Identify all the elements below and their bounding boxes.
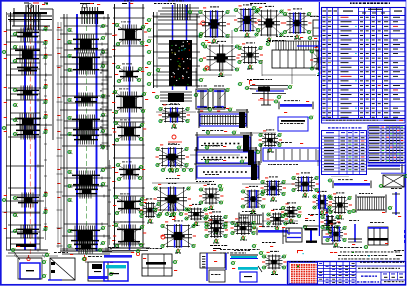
dim chain y155 <box>190 154 240 156</box>
detail F2 joint <box>204 218 228 243</box>
column K2 base <box>60 251 112 261</box>
notes small <box>213 249 260 253</box>
axis marks above K2 K3 <box>80 3 133 8</box>
column K2 anchor bolts top <box>76 3 110 24</box>
detail D4 joint <box>258 129 282 152</box>
detail G4 joint <box>328 192 352 219</box>
dim chain y183 <box>152 183 302 184</box>
title block stamp grid <box>287 261 406 285</box>
bottom detail P1 <box>11 246 47 279</box>
detail A6 post <box>308 16 322 40</box>
dim chain y75 <box>152 74 316 76</box>
detail B6 joint <box>310 46 331 76</box>
detail E1 joint <box>155 143 189 172</box>
detail E15 marks <box>184 181 313 226</box>
detail C4 beam-post <box>245 79 293 105</box>
detail G5 hatchpost <box>351 193 386 213</box>
dim vchain x157 <box>157 30 232 44</box>
detail E14 beam <box>234 211 263 232</box>
column K1 base <box>8 244 48 261</box>
detail B5 girder box <box>266 36 337 69</box>
detail G0 small beams <box>331 156 351 176</box>
detail F1 joint <box>160 216 196 254</box>
K2 bottom hatch <box>80 232 92 250</box>
bottom detail P4 <box>98 247 134 281</box>
detail G9 box <box>364 222 389 249</box>
detail F5 box2 <box>322 225 333 244</box>
detail A7 marks <box>154 3 266 14</box>
dim ladder b <box>57 22 63 248</box>
detail A4 joint <box>283 8 312 39</box>
column K1 top plate bar <box>13 12 47 14</box>
column K1 top plate stack <box>8 3 53 141</box>
detail E5 joint <box>139 198 161 223</box>
detail A3 joint <box>254 6 284 42</box>
mass table <box>367 125 405 166</box>
specification table <box>320 2 405 125</box>
dim vchain x196 <box>196 60 262 86</box>
left margin marks <box>2 50 7 202</box>
bottom detail P3 <box>82 256 114 281</box>
detail D1 girder <box>197 107 249 128</box>
detail E2 ring fan <box>161 160 194 179</box>
detail E9 joint <box>291 172 319 197</box>
column K3 elevation <box>112 1 148 251</box>
detail C2 section <box>196 86 213 112</box>
bottom detail P8 <box>262 251 287 275</box>
bottom detail P5 <box>131 248 178 276</box>
detail C7 marks <box>238 79 263 86</box>
dim ladder d <box>108 160 111 245</box>
detail G2 xbox <box>379 173 407 187</box>
detail E8 joint <box>241 186 266 214</box>
detail B4 joint <box>237 42 263 69</box>
detail E3b girder blue <box>256 142 331 165</box>
field-table divider <box>318 2 320 236</box>
spec table footer <box>322 119 406 124</box>
detail G1 beam <box>359 157 402 173</box>
detail E13 joint <box>204 211 228 234</box>
detail F4 bluebar <box>252 226 289 236</box>
dim ladder c <box>100 48 109 150</box>
dim line y212 <box>2 211 40 213</box>
brace column K4 <box>145 1 205 91</box>
detail G3 bluebar <box>328 179 371 189</box>
title block sign grid <box>318 262 357 285</box>
detail B7 marks <box>156 40 286 72</box>
detail C5 bluebar <box>274 100 313 110</box>
detail E11 joint <box>266 209 288 231</box>
dim vchain x292 <box>292 68 318 166</box>
detail E6 joint <box>153 183 191 217</box>
detail G8 post <box>348 220 362 245</box>
detail E3a girder <box>194 145 258 165</box>
detail B3 joint <box>203 41 240 77</box>
detail F7 marks <box>210 242 276 248</box>
column K3 base <box>110 248 150 259</box>
bottom detail P6 <box>200 248 226 282</box>
detail F5 post <box>297 220 319 254</box>
detail C3 section <box>213 86 230 112</box>
detail F3 joint <box>230 217 256 240</box>
column K2 elevation <box>57 11 115 255</box>
dim ladder a <box>44 40 47 240</box>
K4 bottom cluster <box>152 92 199 105</box>
bottom detail P2 <box>45 252 75 280</box>
column K1 elevation <box>4 9 52 254</box>
detail E7 joint <box>199 184 224 210</box>
bottom detail P7 <box>230 250 264 282</box>
detail C6 box <box>278 112 314 131</box>
detail D2 joint <box>158 103 190 144</box>
detail F5 box <box>283 223 308 244</box>
detail A2 joint <box>198 6 230 43</box>
detail G7 joint <box>325 222 347 247</box>
detail E12 post <box>305 208 331 230</box>
detail E3 girder <box>194 159 261 180</box>
notes block <box>330 247 400 259</box>
detail G6 post <box>388 188 402 217</box>
detail A5 joint <box>234 4 261 37</box>
dim chain y222 <box>196 221 298 222</box>
detail D3 girder <box>195 130 253 152</box>
bolts table <box>321 125 368 176</box>
axis bubble K1 <box>28 4 33 9</box>
dim line under K1 <box>6 255 58 258</box>
title block name fields <box>356 261 405 284</box>
detail E4 joint <box>260 176 286 201</box>
detail F6 joint <box>320 211 340 234</box>
detail E10 joint <box>312 191 332 215</box>
dim chain y37 <box>148 36 256 38</box>
detail G10 marks <box>394 230 405 256</box>
dim chain y112 <box>156 112 276 133</box>
dim chain y16 <box>152 15 318 17</box>
